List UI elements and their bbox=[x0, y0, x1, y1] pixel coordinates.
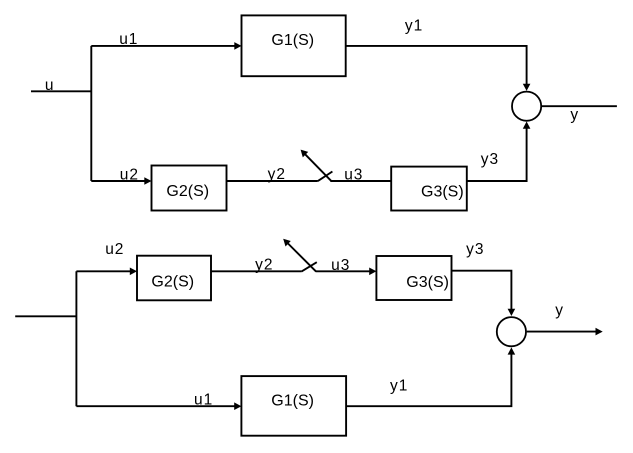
summing junction (bottom) bbox=[497, 317, 526, 346]
wire u1 (top) bbox=[91, 45, 235, 47]
wire u input (top diagram) bbox=[31, 90, 91, 92]
svg-text:u2: u2 bbox=[120, 167, 139, 184]
svg-text:G1(S): G1(S) bbox=[271, 393, 314, 410]
wire u3 (bottom) bbox=[316, 270, 370, 272]
svg-text:u3: u3 bbox=[331, 257, 350, 274]
switch arrow (top) bbox=[305, 154, 331, 181]
block G1 U1 (top) bbox=[242, 15, 346, 76]
svg-text:u1: u1 bbox=[119, 31, 138, 48]
switch arrow (bottom) bbox=[288, 244, 316, 272]
svg-text:y1: y1 bbox=[390, 378, 408, 395]
svg-text:y1: y1 bbox=[405, 18, 423, 35]
block G3 (top) bbox=[391, 167, 467, 211]
svg-text:G1(S): G1(S) bbox=[271, 32, 314, 49]
wire y output (bottom) bbox=[527, 331, 597, 333]
wire u1 (bottom) bbox=[76, 405, 235, 407]
svg-text:u: u bbox=[45, 77, 55, 94]
block G2 (top) bbox=[152, 166, 227, 211]
switch blade (bottom) bbox=[301, 262, 316, 271]
svg-text:y2: y2 bbox=[255, 257, 273, 274]
wire u2 (bottom) bbox=[76, 270, 130, 272]
svg-text:y3: y3 bbox=[481, 151, 499, 168]
wire y3 (bottom) bbox=[452, 271, 512, 310]
svg-text:G2(S): G2(S) bbox=[151, 273, 194, 290]
switch blade (top) bbox=[318, 172, 333, 182]
svg-text:y: y bbox=[570, 107, 579, 124]
wire y output (top) bbox=[542, 105, 617, 107]
svg-text:u1: u1 bbox=[194, 392, 213, 409]
block G3 (bottom) bbox=[376, 256, 451, 300]
svg-text:G3(S): G3(S) bbox=[421, 184, 464, 201]
block G1 (bottom) bbox=[241, 376, 346, 436]
svg-text:y3: y3 bbox=[466, 241, 484, 258]
wire u3 (top) bbox=[330, 180, 391, 182]
svg-text:G2(S): G2(S) bbox=[166, 183, 209, 200]
wire u2 (top) bbox=[91, 180, 145, 182]
wire y2 (bottom) bbox=[211, 270, 301, 272]
wire y1 (bottom) bbox=[346, 354, 511, 407]
wire y2 (top) bbox=[227, 180, 318, 182]
node branch vertical (bottom) bbox=[75, 271, 77, 406]
svg-text:u3: u3 bbox=[344, 167, 363, 184]
block G2 (bottom) bbox=[137, 256, 211, 301]
svg-text:y: y bbox=[555, 302, 564, 319]
wire y1 (top) bbox=[346, 46, 527, 85]
summing junction (top) bbox=[512, 92, 541, 121]
svg-text:u2: u2 bbox=[105, 241, 124, 258]
wire y3 (top) bbox=[467, 128, 527, 181]
svg-text:y2: y2 bbox=[268, 166, 286, 183]
node branch vertical (top diagram) bbox=[90, 46, 92, 181]
wire input (bottom diagram) bbox=[15, 315, 76, 317]
svg-text:G3(S): G3(S) bbox=[406, 274, 449, 291]
